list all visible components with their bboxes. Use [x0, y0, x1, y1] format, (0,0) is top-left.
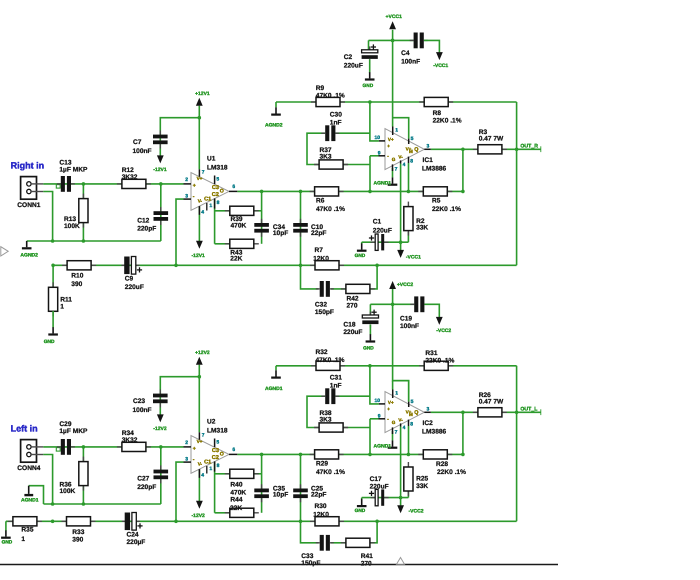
- svg-text:7: 7: [202, 169, 205, 175]
- svg-text:-12V1: -12V1: [153, 167, 167, 173]
- svg-text:AGND1: AGND1: [21, 497, 39, 503]
- svg-text:12K0: 12K0: [313, 512, 329, 519]
- svg-text:8: 8: [217, 200, 220, 206]
- svg-text:R42: R42: [347, 295, 359, 302]
- svg-text:4: 4: [201, 209, 204, 215]
- svg-text:0.47 7W: 0.47 7W: [479, 136, 504, 143]
- svg-text:-VCC1: -VCC1: [433, 63, 448, 69]
- svg-text:C12: C12: [137, 217, 149, 224]
- svg-text:5: 5: [216, 176, 219, 182]
- svg-text:C23: C23: [133, 398, 145, 405]
- svg-text:1: 1: [21, 536, 25, 543]
- svg-text:10pF: 10pF: [273, 230, 288, 237]
- svg-text:+VCC2: +VCC2: [397, 282, 413, 288]
- svg-text:R40: R40: [230, 481, 242, 488]
- svg-text:GND: GND: [363, 346, 374, 352]
- svg-text:G: G: [392, 157, 396, 162]
- svg-text:3: 3: [427, 407, 430, 413]
- svg-text:C19: C19: [400, 315, 412, 322]
- svg-text:R6: R6: [316, 198, 325, 205]
- svg-text:100nF: 100nF: [400, 323, 419, 330]
- svg-text:Left in: Left in: [11, 424, 38, 434]
- svg-text:M: M: [409, 412, 413, 417]
- svg-text:V-: V-: [398, 418, 403, 423]
- svg-text:220uF: 220uF: [343, 329, 362, 336]
- svg-text:150pF: 150pF: [315, 309, 334, 316]
- svg-text:22pF: 22pF: [311, 492, 326, 499]
- svg-text:+VCC1: +VCC1: [386, 14, 402, 20]
- svg-text:220pF: 220pF: [137, 484, 156, 491]
- svg-text:GND: GND: [363, 83, 374, 89]
- svg-text:-: -: [193, 194, 195, 200]
- svg-text:7: 7: [395, 430, 398, 436]
- svg-text:AGND1: AGND1: [265, 386, 283, 392]
- svg-text:33K: 33K: [416, 225, 428, 232]
- svg-text:220uF: 220uF: [125, 284, 144, 291]
- svg-text:390: 390: [72, 537, 83, 544]
- svg-text:LM318: LM318: [207, 427, 228, 434]
- svg-text:7: 7: [202, 432, 205, 438]
- svg-text:5: 5: [411, 399, 414, 405]
- svg-text:C3: C3: [212, 448, 219, 454]
- svg-text:R9: R9: [316, 85, 325, 92]
- svg-text:AGND2: AGND2: [265, 122, 283, 128]
- svg-text:9: 9: [378, 151, 381, 157]
- svg-text:R8: R8: [433, 110, 442, 117]
- svg-text:+: +: [387, 407, 390, 412]
- svg-text:1µF MKP: 1µF MKP: [59, 428, 88, 435]
- svg-text:12K0: 12K0: [313, 256, 329, 263]
- svg-text:R31: R31: [425, 350, 437, 357]
- svg-text:C7: C7: [133, 139, 142, 146]
- svg-text:22K: 22K: [230, 505, 242, 512]
- svg-text:Q: Q: [414, 147, 418, 153]
- svg-text:220uF: 220uF: [344, 63, 363, 70]
- svg-text:C29: C29: [59, 421, 71, 428]
- svg-text:+12V2: +12V2: [195, 350, 210, 356]
- svg-text:-12V1: -12V1: [192, 253, 206, 259]
- svg-text:G: G: [392, 420, 396, 425]
- svg-text:R33: R33: [72, 529, 84, 536]
- svg-text:8: 8: [410, 159, 413, 165]
- svg-text:C2: C2: [212, 192, 219, 198]
- svg-text:100K: 100K: [64, 223, 80, 230]
- svg-text:22pF: 22pF: [311, 230, 326, 237]
- svg-text:C2: C2: [212, 455, 219, 461]
- svg-text:3: 3: [427, 144, 430, 150]
- svg-text:C13: C13: [59, 160, 71, 167]
- svg-text:390: 390: [71, 281, 82, 288]
- svg-text:C31: C31: [330, 374, 342, 381]
- svg-text:3K32: 3K32: [122, 174, 138, 181]
- svg-text:3: 3: [185, 193, 188, 199]
- svg-text:10pF: 10pF: [273, 492, 288, 499]
- svg-text:-VCC1: -VCC1: [406, 255, 421, 261]
- svg-text:1: 1: [60, 304, 64, 311]
- svg-text:4: 4: [403, 162, 406, 168]
- svg-text:-: -: [193, 457, 195, 463]
- svg-text:220uF: 220uF: [373, 227, 392, 234]
- svg-text:150pF: 150pF: [301, 560, 320, 567]
- svg-text:3: 3: [185, 456, 188, 462]
- svg-text:C2: C2: [344, 54, 353, 61]
- svg-text:U2: U2: [207, 419, 216, 426]
- svg-text:C4: C4: [401, 50, 410, 57]
- svg-text:1nF: 1nF: [330, 383, 342, 390]
- svg-text:V-: V-: [198, 462, 203, 467]
- svg-text:2: 2: [185, 177, 188, 183]
- svg-text:3K32: 3K32: [122, 437, 138, 444]
- svg-text:1nF: 1nF: [330, 120, 342, 127]
- svg-text:1µF MKP: 1µF MKP: [59, 167, 88, 174]
- svg-text:1: 1: [395, 128, 398, 134]
- svg-text:V+: V+: [197, 176, 203, 181]
- svg-text:CONN1: CONN1: [17, 202, 40, 209]
- svg-text:V-: V-: [398, 155, 403, 160]
- svg-text:C17: C17: [370, 476, 382, 483]
- svg-text:M: M: [409, 149, 413, 154]
- svg-text:R25: R25: [416, 476, 428, 483]
- svg-text:U1: U1: [207, 156, 216, 163]
- svg-text:Q: Q: [414, 410, 418, 416]
- svg-text:5: 5: [411, 136, 414, 142]
- svg-text:8: 8: [410, 422, 413, 428]
- svg-text:C1: C1: [204, 196, 211, 202]
- svg-text:O: O: [220, 452, 224, 458]
- svg-text:33K: 33K: [416, 483, 428, 490]
- svg-text:1: 1: [209, 466, 212, 472]
- svg-text:100K: 100K: [60, 488, 76, 495]
- svg-text:GND: GND: [2, 539, 13, 545]
- svg-text:R5: R5: [432, 198, 441, 205]
- svg-text:47K0 .1%: 47K0 .1%: [316, 92, 345, 99]
- svg-text:LM3886: LM3886: [422, 429, 447, 436]
- svg-text:CONN4: CONN4: [17, 465, 40, 472]
- svg-text:IC2: IC2: [423, 420, 434, 427]
- svg-text:3K3: 3K3: [320, 154, 332, 161]
- svg-text:V+: V+: [388, 137, 394, 142]
- svg-text:+12V1: +12V1: [195, 91, 210, 97]
- svg-text:GND: GND: [44, 339, 55, 345]
- svg-text:C1: C1: [373, 218, 382, 225]
- svg-text:47K0 .1%: 47K0 .1%: [316, 469, 345, 476]
- svg-text:R44: R44: [230, 496, 242, 503]
- svg-text:7: 7: [395, 167, 398, 173]
- svg-text:LM3886: LM3886: [422, 166, 447, 173]
- svg-text:1: 1: [395, 391, 398, 397]
- svg-text:C1: C1: [204, 459, 211, 465]
- svg-text:4: 4: [403, 425, 406, 431]
- svg-text:R41: R41: [361, 553, 373, 560]
- svg-text:100nF: 100nF: [133, 148, 152, 155]
- svg-text:R35: R35: [21, 527, 33, 534]
- svg-text:OUT_R: OUT_R: [520, 144, 538, 150]
- svg-text:22K0 .1%: 22K0 .1%: [433, 118, 462, 125]
- svg-text:C18: C18: [343, 321, 355, 328]
- svg-text:C30: C30: [330, 111, 342, 118]
- svg-text:4: 4: [201, 472, 204, 478]
- svg-text:AGND1: AGND1: [374, 443, 392, 449]
- svg-text:R29: R29: [316, 461, 328, 468]
- svg-text:R7: R7: [315, 247, 324, 254]
- svg-text:+: +: [387, 144, 390, 149]
- svg-text:C9: C9: [125, 276, 134, 283]
- svg-text:22K0 .1%: 22K0 .1%: [437, 469, 466, 476]
- svg-text:22K0 .1%: 22K0 .1%: [425, 357, 454, 364]
- svg-text:100nF: 100nF: [401, 59, 420, 66]
- svg-text:Right in: Right in: [11, 161, 45, 171]
- svg-text:+: +: [193, 446, 196, 452]
- svg-text:-VCC2: -VCC2: [409, 509, 424, 515]
- svg-text:R11: R11: [60, 296, 72, 303]
- svg-text:OUT_L: OUT_L: [520, 407, 538, 413]
- svg-text:V-: V-: [198, 199, 203, 204]
- svg-text:0.47 7W: 0.47 7W: [479, 399, 504, 406]
- svg-text:6: 6: [232, 184, 235, 190]
- svg-text:C27: C27: [137, 476, 149, 483]
- svg-text:R30: R30: [315, 503, 327, 510]
- svg-text:9: 9: [378, 414, 381, 420]
- svg-text:5: 5: [216, 439, 219, 445]
- svg-text:+: +: [193, 183, 196, 189]
- svg-text:6: 6: [232, 447, 235, 453]
- svg-text:10: 10: [375, 398, 381, 404]
- svg-text:10: 10: [375, 135, 381, 141]
- svg-text:GND: GND: [355, 253, 366, 259]
- svg-text:100nF: 100nF: [133, 407, 152, 414]
- svg-text:GND: GND: [355, 508, 366, 514]
- svg-text:R10: R10: [71, 273, 83, 280]
- svg-text:C32: C32: [315, 302, 327, 309]
- svg-text:220pF: 220pF: [137, 225, 156, 232]
- svg-text:R28: R28: [436, 461, 448, 468]
- svg-text:AGND1: AGND1: [374, 180, 392, 186]
- svg-text:IC1: IC1: [423, 157, 434, 164]
- svg-text:V+: V+: [388, 400, 394, 405]
- svg-text:O: O: [220, 189, 224, 195]
- svg-text:47K0 .1%: 47K0 .1%: [316, 206, 345, 213]
- svg-text:22K0 .1%: 22K0 .1%: [432, 206, 461, 213]
- svg-text:-VCC2: -VCC2: [436, 328, 451, 334]
- svg-text:C24: C24: [127, 531, 139, 538]
- svg-text:R32: R32: [316, 349, 328, 356]
- svg-text:V+: V+: [197, 439, 203, 444]
- svg-text:-12V2: -12V2: [153, 426, 167, 432]
- svg-text:47K0 .1%: 47K0 .1%: [316, 357, 345, 364]
- svg-text:220uF: 220uF: [370, 483, 389, 490]
- svg-text:1: 1: [209, 203, 212, 209]
- svg-text:2: 2: [185, 440, 188, 446]
- svg-text:-12V2: -12V2: [192, 513, 206, 519]
- svg-text:8: 8: [217, 463, 220, 469]
- svg-text:220µF: 220µF: [127, 539, 146, 546]
- svg-text:LM318: LM318: [207, 164, 228, 171]
- svg-text:22K: 22K: [230, 255, 242, 262]
- svg-text:3K3: 3K3: [320, 417, 332, 424]
- svg-text:AGND2: AGND2: [20, 253, 38, 259]
- svg-text:270: 270: [347, 302, 358, 309]
- svg-text:C3: C3: [212, 185, 219, 191]
- svg-text:470K: 470K: [231, 222, 247, 229]
